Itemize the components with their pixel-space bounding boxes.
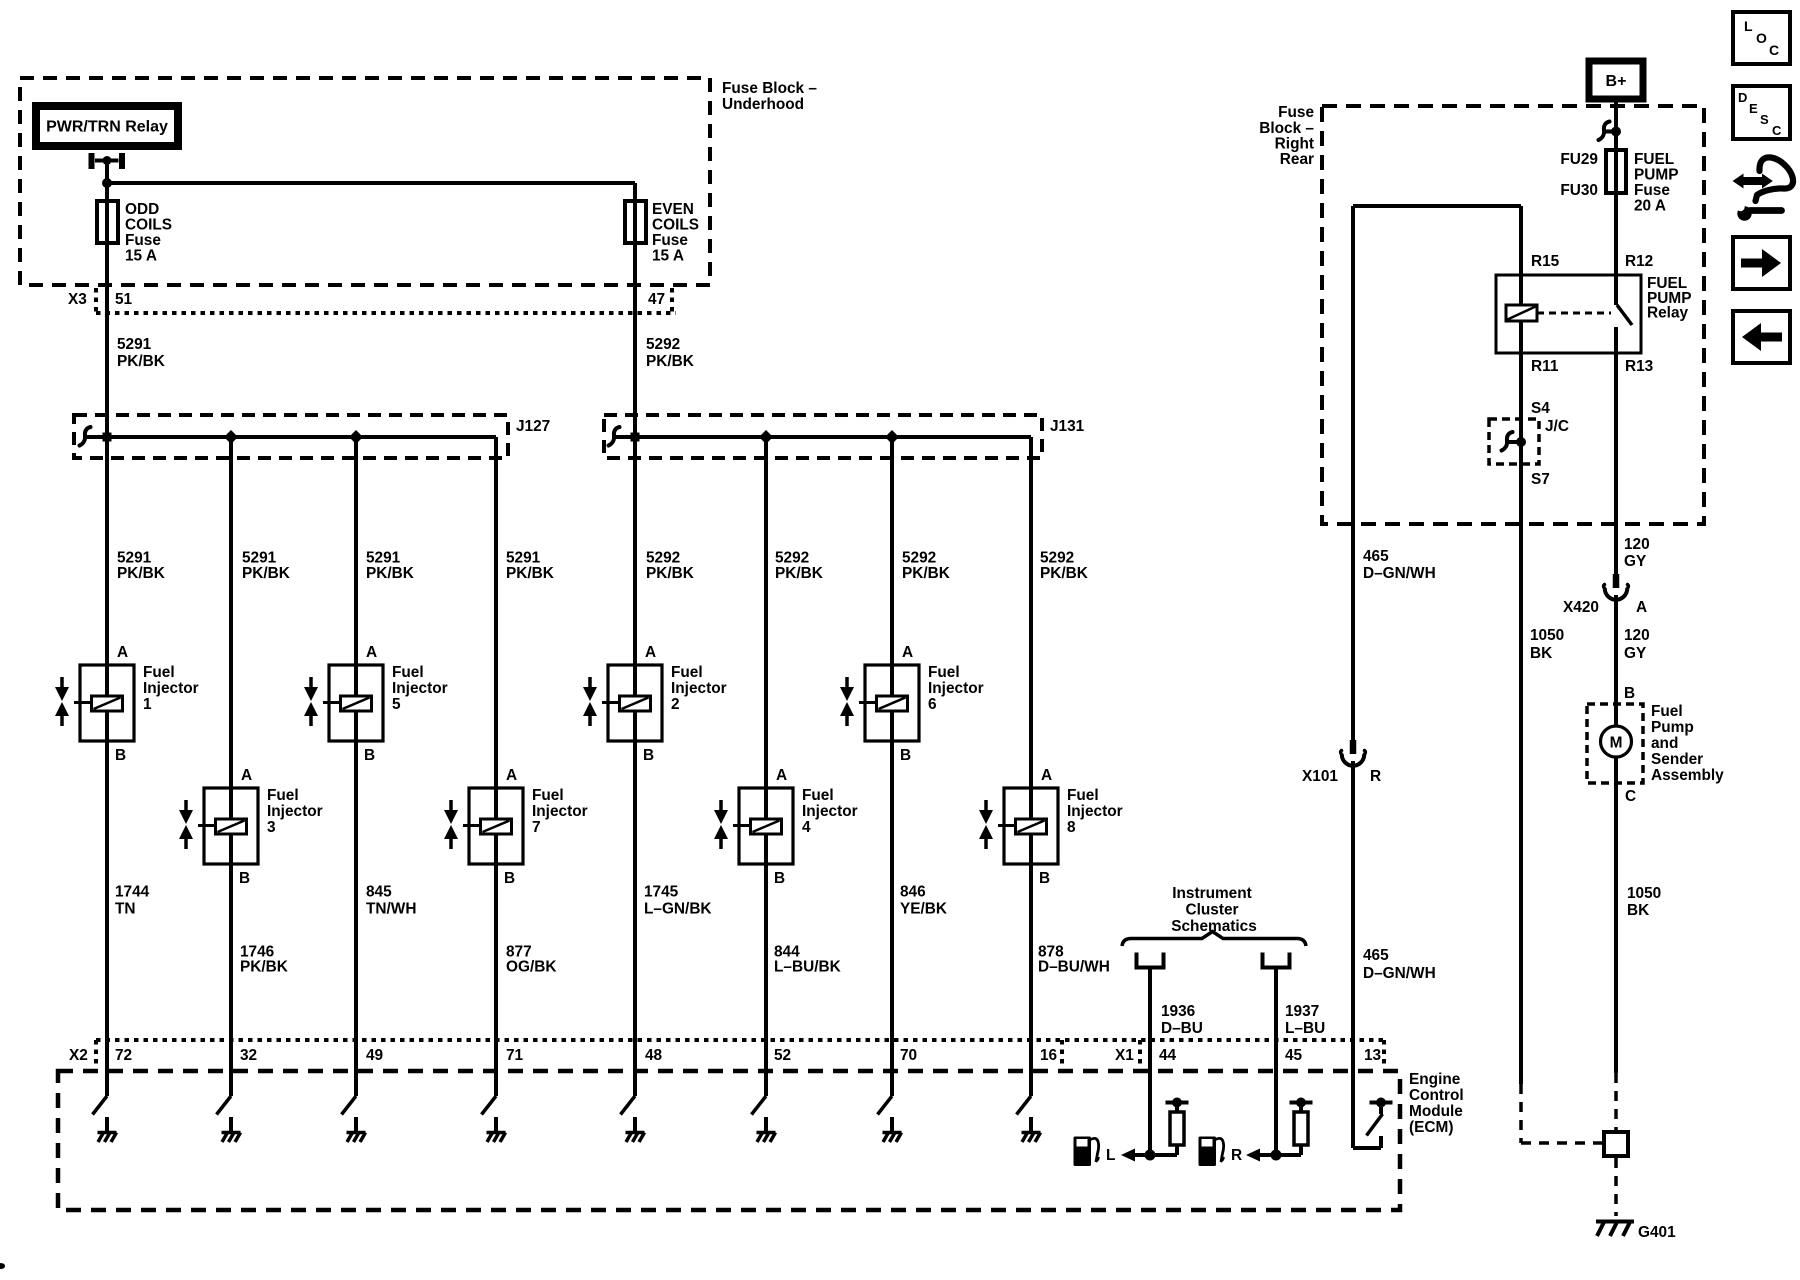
svg-text:BK: BK	[1627, 902, 1649, 919]
svg-text:B: B	[115, 747, 126, 764]
svg-text:20 A: 20 A	[1634, 198, 1666, 215]
svg-text:Injector: Injector	[392, 680, 448, 697]
svg-text:4: 4	[802, 819, 811, 836]
svg-text:J/C: J/C	[1545, 418, 1569, 435]
svg-text:L: L	[1744, 18, 1753, 34]
svg-text:846: 846	[900, 884, 926, 901]
svg-text:1050: 1050	[1530, 627, 1564, 644]
svg-text:Relay: Relay	[1647, 305, 1689, 322]
svg-text:Engine: Engine	[1409, 1071, 1461, 1088]
svg-text:L–BU/BK: L–BU/BK	[774, 959, 841, 976]
svg-text:B+: B+	[1606, 73, 1627, 90]
svg-text:5291: 5291	[506, 550, 541, 567]
svg-text:1745: 1745	[644, 884, 679, 901]
svg-text:X420: X420	[1563, 599, 1599, 616]
svg-text:52: 52	[774, 1047, 791, 1064]
svg-text:44: 44	[1159, 1047, 1177, 1064]
svg-text:A: A	[506, 767, 517, 784]
svg-text:5292: 5292	[646, 336, 680, 353]
svg-text:L–BU: L–BU	[1285, 1020, 1325, 1037]
svg-text:Right: Right	[1275, 136, 1314, 153]
svg-text:15 A: 15 A	[125, 248, 157, 265]
svg-text:D–BU: D–BU	[1161, 1020, 1203, 1037]
svg-text:45: 45	[1285, 1047, 1303, 1064]
svg-text:X101: X101	[1302, 768, 1338, 785]
svg-text:Fuel: Fuel	[928, 664, 960, 681]
svg-text:R11: R11	[1531, 358, 1559, 375]
svg-text:Injector: Injector	[267, 803, 323, 820]
svg-text:120: 120	[1624, 627, 1650, 644]
svg-text:Injector: Injector	[802, 803, 858, 820]
svg-text:A: A	[776, 767, 787, 784]
svg-text:(ECM): (ECM)	[1409, 1119, 1453, 1136]
svg-text:1937: 1937	[1285, 1003, 1319, 1020]
svg-text:M: M	[1610, 735, 1623, 752]
svg-text:32: 32	[240, 1047, 257, 1064]
svg-text:A: A	[1636, 599, 1647, 616]
svg-text:Fuse: Fuse	[1634, 182, 1670, 199]
svg-text:845: 845	[366, 884, 392, 901]
svg-text:B: B	[643, 747, 654, 764]
svg-text:R: R	[1231, 1147, 1242, 1164]
svg-text:EVEN: EVEN	[652, 201, 694, 218]
svg-text:Fuse Block –: Fuse Block –	[722, 80, 817, 97]
svg-text:Control: Control	[1409, 1087, 1464, 1104]
svg-text:5291: 5291	[117, 336, 152, 353]
svg-text:1744: 1744	[115, 884, 150, 901]
svg-text:S: S	[1760, 112, 1769, 127]
svg-text:Fuel: Fuel	[802, 787, 834, 804]
svg-text:X3: X3	[68, 291, 87, 308]
svg-text:FUEL: FUEL	[1634, 151, 1674, 168]
svg-text:7: 7	[532, 819, 541, 836]
svg-text:1050: 1050	[1627, 885, 1661, 902]
svg-text:Fuel: Fuel	[671, 664, 703, 681]
svg-text:465: 465	[1363, 548, 1389, 565]
svg-text:S7: S7	[1531, 471, 1550, 488]
svg-text:5291: 5291	[366, 550, 401, 567]
svg-text:5292: 5292	[1040, 550, 1074, 567]
svg-text:8: 8	[1067, 819, 1076, 836]
svg-text:5291: 5291	[242, 550, 277, 567]
svg-text:Fuel: Fuel	[1067, 787, 1099, 804]
svg-text:Module: Module	[1409, 1103, 1463, 1120]
svg-text:PK/BK: PK/BK	[366, 565, 414, 582]
svg-text:C: C	[1625, 788, 1636, 805]
svg-text:R12: R12	[1625, 253, 1653, 270]
svg-text:R: R	[1370, 768, 1381, 785]
svg-text:D–GN/WH: D–GN/WH	[1363, 565, 1436, 582]
svg-text:FU30: FU30	[1560, 182, 1598, 199]
svg-text:G401: G401	[1638, 1224, 1676, 1241]
svg-text:PK/BK: PK/BK	[775, 565, 823, 582]
svg-text:COILS: COILS	[652, 217, 699, 234]
svg-text:5291: 5291	[117, 550, 152, 567]
svg-text:Fuel: Fuel	[143, 664, 175, 681]
svg-text:B: B	[504, 870, 515, 887]
svg-text:A: A	[366, 644, 377, 661]
svg-text:and: and	[1651, 735, 1678, 752]
svg-text:PWR/TRN Relay: PWR/TRN Relay	[46, 119, 168, 136]
svg-text:51: 51	[115, 291, 133, 308]
svg-text:B: B	[1039, 870, 1050, 887]
svg-text:Instrument: Instrument	[1172, 885, 1252, 902]
svg-text:Injector: Injector	[143, 680, 199, 697]
svg-text:49: 49	[366, 1047, 383, 1064]
svg-text:X2: X2	[69, 1047, 88, 1064]
svg-text:120: 120	[1624, 536, 1650, 553]
svg-text:Fuse: Fuse	[125, 232, 161, 249]
svg-text:B: B	[900, 747, 911, 764]
svg-text:GY: GY	[1624, 553, 1647, 570]
svg-text:C: C	[1769, 42, 1779, 58]
svg-text:Fuel: Fuel	[267, 787, 299, 804]
svg-text:L–GN/BK: L–GN/BK	[644, 901, 712, 918]
svg-text:L: L	[1106, 1147, 1115, 1164]
svg-text:J131: J131	[1050, 418, 1085, 435]
svg-text:COILS: COILS	[125, 217, 172, 234]
svg-text:Rear: Rear	[1280, 151, 1314, 168]
svg-text:B: B	[1624, 685, 1635, 702]
svg-text:70: 70	[900, 1047, 917, 1064]
svg-text:Cluster: Cluster	[1185, 902, 1238, 919]
svg-text:A: A	[902, 644, 913, 661]
svg-text:ODD: ODD	[125, 201, 159, 218]
svg-text:Fuel: Fuel	[392, 664, 424, 681]
svg-text:O: O	[1756, 30, 1767, 46]
svg-text:PK/BK: PK/BK	[902, 565, 950, 582]
svg-text:A: A	[645, 644, 656, 661]
svg-text:3: 3	[267, 819, 276, 836]
svg-text:5292: 5292	[902, 550, 936, 567]
svg-text:47: 47	[648, 291, 665, 308]
svg-text:2: 2	[671, 696, 680, 713]
svg-text:Assembly: Assembly	[1651, 767, 1724, 784]
svg-text:R15: R15	[1531, 253, 1560, 270]
svg-text:R13: R13	[1625, 358, 1653, 375]
svg-text:Injector: Injector	[671, 680, 727, 697]
svg-text:71: 71	[506, 1047, 524, 1064]
svg-text:X1: X1	[1115, 1047, 1134, 1064]
svg-text:PK/BK: PK/BK	[240, 959, 288, 976]
svg-text:D: D	[1738, 90, 1747, 105]
svg-text:B: B	[364, 747, 375, 764]
svg-text:Fuel: Fuel	[532, 787, 564, 804]
svg-text:15 A: 15 A	[652, 248, 684, 265]
svg-text:C: C	[1772, 123, 1782, 138]
svg-text:GY: GY	[1624, 645, 1647, 662]
svg-text:PK/BK: PK/BK	[1040, 565, 1088, 582]
svg-text:5292: 5292	[646, 550, 680, 567]
svg-text:PK/BK: PK/BK	[506, 565, 554, 582]
svg-text:PK/BK: PK/BK	[117, 565, 165, 582]
svg-text:1936: 1936	[1161, 1003, 1195, 1020]
svg-text:465: 465	[1363, 947, 1389, 964]
svg-text:OG/BK: OG/BK	[506, 959, 556, 976]
svg-text:B: B	[774, 870, 785, 887]
svg-text:FU29: FU29	[1560, 151, 1598, 168]
svg-text:TN: TN	[115, 901, 136, 918]
svg-text:Pump: Pump	[1651, 719, 1694, 736]
svg-text:PK/BK: PK/BK	[646, 565, 694, 582]
svg-text:1: 1	[143, 696, 152, 713]
svg-text:PK/BK: PK/BK	[117, 353, 165, 370]
svg-text:Fuse: Fuse	[1278, 104, 1314, 121]
svg-text:YE/BK: YE/BK	[900, 901, 947, 918]
svg-text:Injector: Injector	[532, 803, 588, 820]
svg-text:B: B	[239, 870, 250, 887]
svg-text:16: 16	[1040, 1047, 1057, 1064]
svg-text:72: 72	[115, 1047, 132, 1064]
svg-text:Sender: Sender	[1651, 751, 1703, 768]
svg-text:D–BU/WH: D–BU/WH	[1038, 959, 1110, 976]
svg-text:PK/BK: PK/BK	[242, 565, 290, 582]
svg-text:E: E	[1749, 101, 1758, 116]
svg-text:Underhood: Underhood	[722, 96, 804, 113]
svg-text:Block –: Block –	[1259, 120, 1314, 137]
svg-text:Fuse: Fuse	[652, 232, 688, 249]
svg-text:48: 48	[645, 1047, 663, 1064]
svg-text:5: 5	[392, 696, 401, 713]
svg-text:D–GN/WH: D–GN/WH	[1363, 965, 1436, 982]
svg-text:Injector: Injector	[928, 680, 984, 697]
svg-text:A: A	[1041, 767, 1052, 784]
svg-text:Fuel: Fuel	[1651, 703, 1683, 720]
svg-text:13: 13	[1364, 1047, 1381, 1064]
svg-text:TN/WH: TN/WH	[366, 901, 416, 918]
svg-text:5292: 5292	[775, 550, 809, 567]
svg-text:Injector: Injector	[1067, 803, 1123, 820]
svg-text:J127: J127	[516, 418, 550, 435]
svg-text:S4: S4	[1531, 400, 1550, 417]
svg-text:PK/BK: PK/BK	[646, 353, 694, 370]
svg-text:6: 6	[928, 696, 937, 713]
svg-text:A: A	[241, 767, 252, 784]
svg-text:A: A	[117, 644, 128, 661]
svg-text:PUMP: PUMP	[1634, 167, 1678, 184]
svg-text:BK: BK	[1530, 645, 1552, 662]
